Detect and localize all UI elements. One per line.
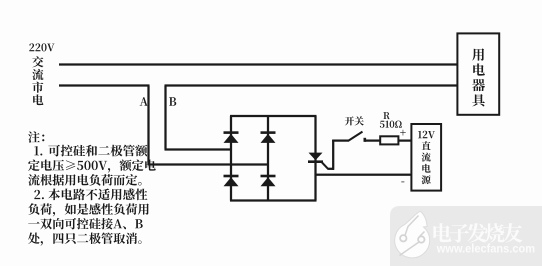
svg-text:www.elecfans.com: www.elecfans.com: [436, 242, 535, 256]
